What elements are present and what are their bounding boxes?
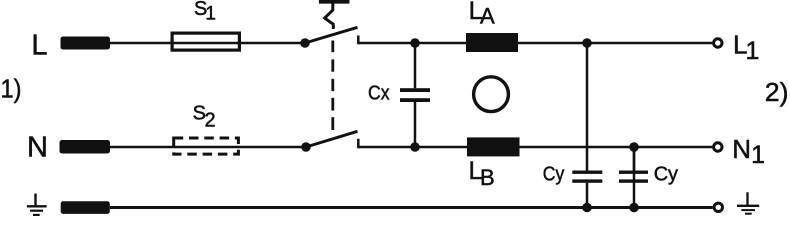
ground (left earth symbol) [27,194,47,215]
svg-text:1): 1) [1,73,22,103]
fuse S2 dashed [174,138,239,154]
svg-text:Cy: Cy [654,164,678,186]
capacitor Cy1 [572,171,602,183]
svg-text:Cx: Cx [368,83,390,105]
switch pole 1 junction dot [300,38,310,48]
wire Cy1 lower lead [586,183,589,208]
wire switch to LA [358,42,466,45]
wire Cx bottom lead [414,102,417,147]
switch pole 2 junction dot [301,142,311,152]
switch actuator bar [319,0,350,4]
terminal L [61,37,111,50]
node Cy2 top [629,142,639,152]
switch actuator zigzag [325,2,334,29]
terminal PE [61,201,110,214]
terminal N [60,140,111,154]
fuse S1 [172,33,239,50]
wire through fuse to switch dot [171,42,302,45]
wire LB to N1 [520,146,713,149]
wire switch to LB [358,146,467,149]
capacitor Cy2 [619,171,648,183]
svg-text:2): 2) [765,77,789,107]
svg-text:LA: LA [469,0,495,29]
wire LA to L1 [518,42,712,45]
node Cy1 top [582,38,592,48]
switch link dashed [331,41,334,131]
switch pole 2 fixed contact [358,139,360,147]
wire Cy2 lower lead [633,147,636,208]
switch pole 1 fixed contact [358,36,360,44]
wire Cy2 upper lead [633,147,636,171]
terminal N1 [714,143,722,151]
choke core circle [474,77,509,112]
terminal PE out [714,203,722,211]
switch pole 2 blade [306,131,358,147]
node Cy1 ground [582,203,592,213]
wire Cx top lead [414,43,417,88]
svg-text:N: N [27,132,48,164]
node Cx top [410,38,420,48]
wire ground line [110,206,713,209]
inductor LB [467,137,520,156]
svg-text:L: L [31,29,47,61]
capacitor Cx [400,88,430,102]
terminal L1 [714,39,722,47]
node Cy2 ground [629,203,639,213]
switch pole 1 blade [305,27,358,43]
wire L terminal to fuse [110,42,171,45]
wire N terminal to switch dot [110,146,303,149]
wire Cy1 upper lead [586,43,589,171]
ground (right earth symbol) [737,192,759,213]
svg-text:Cy: Cy [543,163,565,185]
node Cx bottom [410,142,420,152]
inductor LA [466,33,518,52]
